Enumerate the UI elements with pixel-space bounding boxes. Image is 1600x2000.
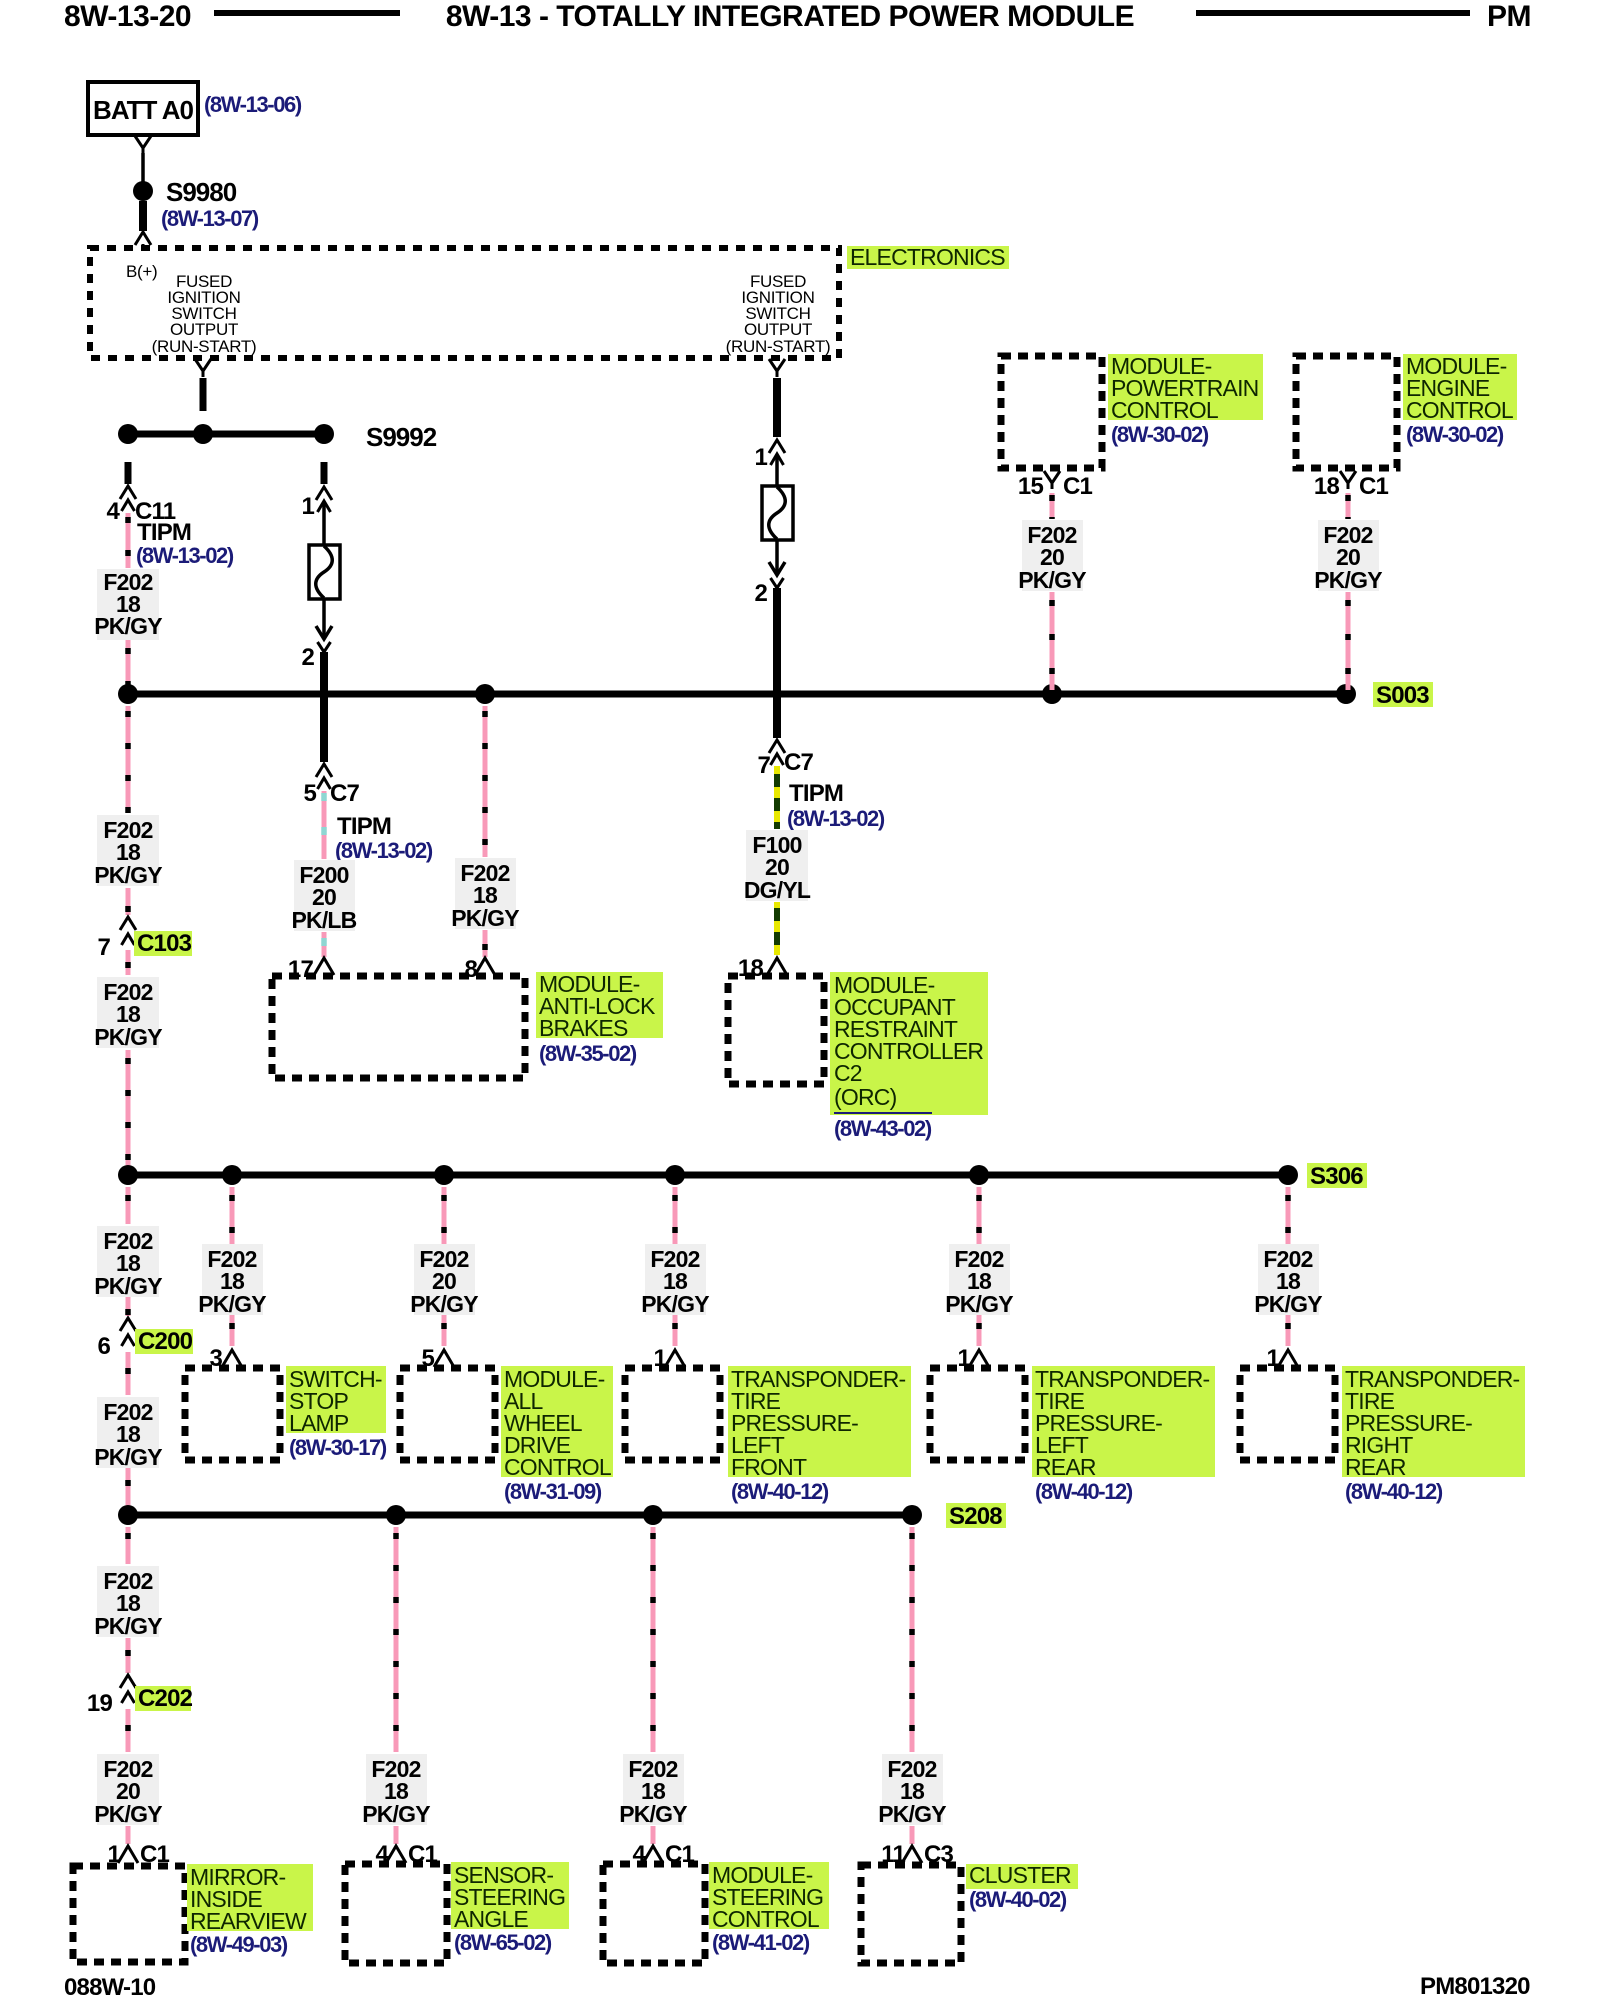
svg-text:2: 2 <box>301 644 314 671</box>
arrow down <box>769 562 785 575</box>
wire label F202 18 PK/GY <box>645 1244 706 1315</box>
module powertrain control box <box>1001 356 1102 468</box>
svg-text:ANGLE: ANGLE <box>454 1906 528 1932</box>
svg-text:088W-10: 088W-10 <box>64 1974 156 2000</box>
svg-text:(RUN-START): (RUN-START) <box>726 337 831 356</box>
svg-text:TIPM: TIPM <box>337 813 391 840</box>
splice bus S003 <box>128 691 1346 698</box>
wire label F202 18 PK/GY <box>1258 1244 1319 1315</box>
svg-text:7: 7 <box>97 934 110 961</box>
wire label F200 20 PK/LB <box>294 860 355 931</box>
svg-text:PK/GY: PK/GY <box>94 862 162 888</box>
label CLUSTER <box>966 1864 1078 1889</box>
connector C103 pin 7 <box>120 917 136 930</box>
wire label F202 18 PK/GY <box>366 1754 427 1825</box>
svg-text:(8W-43-02): (8W-43-02) <box>834 1116 932 1141</box>
svg-text:REAR: REAR <box>1345 1454 1406 1480</box>
label MODULE-OCCUPANT RESTRAINT CONTROLLER C2 (ORC) <box>830 972 988 1115</box>
splice bus S306 <box>128 1172 1288 1179</box>
svg-text:(8W-49-03): (8W-49-03) <box>190 1932 288 1957</box>
wire label F202 20 PK/GY <box>1318 520 1379 591</box>
svg-text:CONTROL: CONTROL <box>504 1454 612 1480</box>
label MODULE-ALL WHEEL DRIVE CONTROL <box>501 1366 613 1477</box>
svg-text:(8W-30-17): (8W-30-17) <box>289 1435 387 1460</box>
switch stop lamp box <box>185 1368 280 1460</box>
wire F202 pink <box>126 513 131 568</box>
wire label F202 18 PK/GY <box>97 1566 159 1637</box>
wire label F100 20 DG/YL <box>746 830 808 901</box>
module occupant restraint controller box <box>728 976 824 1084</box>
label SWITCH-STOP LAMP <box>286 1366 386 1433</box>
wire F202 pink <box>910 1826 915 1844</box>
sensor steering angle box <box>345 1864 447 1963</box>
svg-text:(8W-40-12): (8W-40-12) <box>1035 1479 1133 1504</box>
svg-text:(8W-30-02): (8W-30-02) <box>1111 422 1209 447</box>
wire F202 pink branch to ABS pin 8 <box>483 706 488 857</box>
svg-text:(ORC): (ORC) <box>834 1084 897 1110</box>
svg-text:(8W-65-02): (8W-65-02) <box>454 1930 552 1955</box>
svg-text:S208: S208 <box>949 1503 1002 1530</box>
svg-text:S9992: S9992 <box>366 422 437 452</box>
svg-text:C103: C103 <box>137 930 192 957</box>
label MODULE-STEERING CONTROL <box>709 1862 829 1929</box>
fuse right <box>762 486 793 540</box>
svg-text:BRAKES: BRAKES <box>539 1015 628 1041</box>
svg-text:(8W-40-02): (8W-40-02) <box>969 1887 1067 1912</box>
transponder tire pressure left rear box <box>930 1368 1025 1460</box>
svg-text:PK/GY: PK/GY <box>410 1291 478 1317</box>
wire F202 pink <box>126 640 131 689</box>
label MIRROR-INSIDE REARVIEW <box>187 1864 313 1931</box>
svg-text:FRONT: FRONT <box>731 1454 807 1480</box>
wire label F202 18 PK/GY <box>97 1226 159 1297</box>
ELECTRONICS dashed box <box>90 248 839 358</box>
svg-text:CONTROL: CONTROL <box>1406 397 1514 423</box>
splice S9980 <box>133 181 153 201</box>
label MODULE-POWERTRAIN CONTROL <box>1108 354 1263 420</box>
wire F202 pink branch to cluster <box>910 1527 915 1752</box>
wire F202 pink <box>126 1352 131 1395</box>
svg-text:1: 1 <box>754 444 767 471</box>
wire F202 pink left column below S208 <box>126 1527 131 1564</box>
svg-text:(8W-13-07): (8W-13-07) <box>161 206 259 231</box>
svg-text:(8W-40-12): (8W-40-12) <box>731 1479 829 1504</box>
svg-text:(8W-13-06): (8W-13-06) <box>204 92 302 117</box>
svg-text:BATT A0: BATT A0 <box>93 95 193 125</box>
connector C200 pin 6 <box>120 1318 136 1331</box>
wire <box>139 201 147 231</box>
svg-text:PK/GY: PK/GY <box>1254 1291 1322 1317</box>
svg-text:18: 18 <box>1314 473 1340 500</box>
wire label F202 18 PK/GY <box>97 815 159 886</box>
svg-text:19: 19 <box>87 1690 113 1717</box>
fuse <box>309 545 340 599</box>
label S208 <box>946 1503 1006 1528</box>
wire F200 pink/light-blue <box>322 791 327 859</box>
svg-text:C7: C7 <box>330 780 360 807</box>
svg-text:6: 6 <box>97 1333 110 1360</box>
svg-text:C202: C202 <box>138 1685 193 1712</box>
wire F202 pink <box>1050 592 1055 690</box>
label TRANSPONDER-TIRE PRESSURE-LEFT FRONT <box>728 1366 911 1477</box>
wire <box>773 378 781 437</box>
wire label F202 18 PK/GY <box>97 569 159 640</box>
wire label F202 20 PK/GY <box>1022 520 1083 591</box>
svg-text:(8W-30-02): (8W-30-02) <box>1406 422 1504 447</box>
svg-text:C200: C200 <box>138 1328 193 1355</box>
svg-text:ELECTRONICS: ELECTRONICS <box>850 244 1005 270</box>
splice bus S9992 <box>128 431 324 438</box>
wire F202 pink branch to TPM left front <box>673 1187 678 1346</box>
connector C202 pin 19 <box>120 1675 136 1688</box>
svg-text:15: 15 <box>1018 473 1044 500</box>
wire F202 pink <box>1050 493 1055 519</box>
wire F202 pink left column below S306 <box>126 1187 131 1224</box>
svg-text:(8W-13-02): (8W-13-02) <box>335 838 433 863</box>
svg-text:PK/GY: PK/GY <box>1018 567 1086 593</box>
wire F202 pink <box>126 1709 131 1752</box>
transponder tire pressure left front box <box>625 1368 720 1460</box>
wire below fuse <box>775 540 779 572</box>
module steering control box <box>603 1864 705 1963</box>
wire F202 pink <box>126 1468 131 1510</box>
connector symbol below ELECTRONICS right output <box>769 359 785 377</box>
wire stub below S9992 left <box>125 462 132 484</box>
svg-text:PK/GY: PK/GY <box>94 1444 162 1470</box>
svg-text:PK/GY: PK/GY <box>94 1613 162 1639</box>
svg-text:S9980: S9980 <box>166 177 237 207</box>
header rule right <box>1196 10 1470 16</box>
svg-text:PK/GY: PK/GY <box>619 1801 687 1827</box>
svg-text:PK/GY: PK/GY <box>1314 567 1382 593</box>
svg-text:PK/GY: PK/GY <box>94 1024 162 1050</box>
wire F202 pink branch to steering control module <box>651 1527 656 1752</box>
wire thick to C7 pin 7 <box>773 588 781 738</box>
svg-text:LAMP: LAMP <box>289 1410 349 1436</box>
svg-text:TIPM: TIPM <box>789 780 843 807</box>
svg-text:5: 5 <box>303 780 316 807</box>
wire label F202 18 PK/GY <box>97 1397 159 1468</box>
svg-text:PK/LB: PK/LB <box>291 907 356 933</box>
mirror inside rearview box <box>73 1866 185 1962</box>
label TRANSPONDER-TIRE PRESSURE-LEFT REAR <box>1032 1366 1215 1477</box>
connector C11 pin 4 <box>120 486 136 499</box>
wire label F202 18 PK/GY <box>455 858 516 929</box>
wire F202 pink branch to TPM left rear <box>977 1187 982 1346</box>
label ELECTRONICS <box>847 246 1009 269</box>
cluster box <box>861 1865 961 1963</box>
label S003 <box>1373 682 1433 707</box>
wire below fuse <box>322 599 326 636</box>
svg-text:(8W-13-02): (8W-13-02) <box>136 543 234 568</box>
wire label F202 18 PK/GY <box>882 1754 943 1825</box>
wire <box>141 153 145 183</box>
label SENSOR-STEERING ANGLE <box>451 1862 569 1929</box>
svg-text:1: 1 <box>301 493 314 520</box>
svg-text:(8W-13-02): (8W-13-02) <box>787 806 885 831</box>
wire F202 pink <box>126 950 131 975</box>
wire F202 pink branch to steering angle sensor <box>394 1527 399 1752</box>
wire F202 pink <box>394 1826 399 1844</box>
wire F202 pink <box>126 888 131 915</box>
wire label F202 20 PK/GY <box>414 1244 475 1315</box>
connector symbol below ELECTRONICS left output <box>195 359 211 377</box>
splice bus S208 <box>128 1512 912 1519</box>
svg-text:(8W-31-09): (8W-31-09) <box>504 1479 602 1504</box>
svg-text:PK/GY: PK/GY <box>451 905 519 931</box>
connector symbol below BATT A0 <box>135 136 151 154</box>
svg-text:(RUN-START): (RUN-START) <box>152 337 257 356</box>
wire F202 pink <box>1346 493 1351 519</box>
svg-text:4: 4 <box>106 498 120 525</box>
wire F202 pink <box>651 1826 656 1844</box>
label TRANSPONDER-TIRE PRESSURE-RIGHT REAR <box>1342 1366 1525 1477</box>
svg-text:PK/GY: PK/GY <box>94 1273 162 1299</box>
svg-text:S003: S003 <box>1376 682 1429 709</box>
svg-text:TIPM: TIPM <box>137 519 191 546</box>
wire F202 pink below S003 <box>126 706 131 813</box>
wire F202 pink <box>126 1638 131 1673</box>
wire stub below S9992 right <box>321 462 328 484</box>
wire F100 dark green/yellow <box>774 766 780 829</box>
svg-text:B(+): B(+) <box>126 262 157 281</box>
svg-text:PK/GY: PK/GY <box>362 1801 430 1827</box>
wire to fuse <box>322 503 326 545</box>
wire F202 pink <box>126 1050 131 1170</box>
svg-text:PK/GY: PK/GY <box>94 613 162 639</box>
wire F202 pink branch to stop lamp switch <box>230 1187 235 1346</box>
module all wheel drive control box <box>400 1368 495 1460</box>
svg-text:DG/YL: DG/YL <box>744 877 811 903</box>
svg-text:8W-13 - TOTALLY INTEGRATED POW: 8W-13 - TOTALLY INTEGRATED POWER MODULE <box>446 0 1134 33</box>
svg-text:2: 2 <box>754 580 767 607</box>
wire F202 pink branch to TPM right rear <box>1286 1187 1291 1346</box>
svg-text:PK/GY: PK/GY <box>878 1801 946 1827</box>
svg-text:C2: C2 <box>834 1060 862 1086</box>
svg-text:C1: C1 <box>1359 473 1389 500</box>
wire label F202 18 PK/GY <box>949 1244 1010 1315</box>
svg-text:CLUSTER: CLUSTER <box>969 1862 1071 1888</box>
wire thick to C7 <box>320 652 328 762</box>
svg-text:C1: C1 <box>1063 473 1093 500</box>
connector C7 pin 7 <box>769 740 785 753</box>
module anti-lock brakes box <box>272 976 525 1078</box>
svg-text:(8W-41-02): (8W-41-02) <box>712 1930 810 1955</box>
svg-text:PK/GY: PK/GY <box>641 1291 709 1317</box>
transponder tire pressure right rear box <box>1240 1368 1335 1460</box>
label S306 <box>1307 1163 1367 1188</box>
wire F100 dark green/yellow <box>774 902 780 955</box>
connector chevron into ELECTRONICS <box>135 232 151 245</box>
svg-text:PK/GY: PK/GY <box>198 1291 266 1317</box>
battery feed box BATT A0 <box>88 82 198 135</box>
module engine control box <box>1296 356 1397 468</box>
svg-text:PK/GY: PK/GY <box>94 1801 162 1827</box>
wire F202 pink <box>126 1297 131 1316</box>
svg-text:S306: S306 <box>1310 1163 1363 1190</box>
wire <box>200 378 207 411</box>
svg-text:REAR: REAR <box>1035 1454 1096 1480</box>
wire F202 pink <box>126 1826 131 1844</box>
header rule left <box>214 10 400 16</box>
svg-text:CONTROL: CONTROL <box>1111 397 1219 423</box>
label MODULE-ENGINE CONTROL <box>1403 354 1517 420</box>
svg-text:(8W-35-02): (8W-35-02) <box>539 1041 637 1066</box>
wire F202 pink <box>483 930 488 957</box>
svg-text:PM: PM <box>1487 0 1531 33</box>
wire label F202 18 PK/GY <box>623 1754 684 1825</box>
svg-text:8W-13-20: 8W-13-20 <box>64 0 191 33</box>
wire label F202 18 PK/GY <box>202 1244 263 1315</box>
wire label F202 18 PK/GY <box>97 977 159 1048</box>
wire F202 pink branch to AWD module <box>442 1187 447 1346</box>
label MODULE-ANTI-LOCK BRAKES <box>536 972 663 1038</box>
connector C7 pin 5 <box>316 764 332 777</box>
wire F202 pink <box>1346 592 1351 690</box>
svg-text:C7: C7 <box>784 749 814 776</box>
svg-text:REARVIEW: REARVIEW <box>190 1908 307 1934</box>
wire to fuse <box>775 456 779 486</box>
arrow down <box>316 626 332 639</box>
svg-text:PM801320: PM801320 <box>1420 1973 1530 2000</box>
wire label F202 20 PK/GY <box>97 1754 159 1825</box>
svg-text:7: 7 <box>757 752 770 779</box>
svg-text:PK/GY: PK/GY <box>945 1291 1013 1317</box>
wire F200 pink/light-blue <box>322 932 327 957</box>
svg-text:(8W-40-12): (8W-40-12) <box>1345 1479 1443 1504</box>
svg-text:CONTROL: CONTROL <box>712 1906 820 1932</box>
